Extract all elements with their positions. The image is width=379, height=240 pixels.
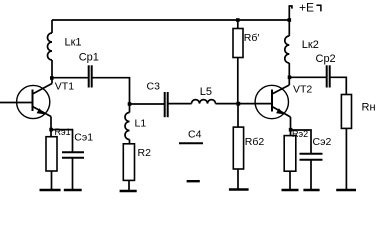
node rail junction for Rб' <box>236 18 240 22</box>
wire emitter VT2 down <box>290 117 292 136</box>
svg-text:R2: R2 <box>138 147 152 159</box>
resistor R2 <box>123 144 151 191</box>
svg-text:Lк2: Lк2 <box>302 39 319 51</box>
capacitor C4 bottom plate <box>187 180 200 182</box>
capacitor Cэ2 <box>300 136 332 190</box>
ground under Cэ2 <box>303 189 319 191</box>
node B2 junction <box>236 102 240 106</box>
capacitor C3 <box>147 81 168 118</box>
ground under Rб2 <box>229 188 249 190</box>
ground under R2 <box>120 190 137 192</box>
svg-text:Cр2: Cр2 <box>316 53 336 65</box>
+Eп supply terminal <box>289 1 321 21</box>
wire collector VT2 to Cp2 <box>289 76 326 78</box>
wire Cp1 to corner down to L1 node <box>93 78 130 104</box>
inductor L5 <box>192 86 216 104</box>
wire node to C3 <box>130 103 165 105</box>
capacitor Cэ1 <box>62 132 93 191</box>
wire input to base VT1 <box>0 102 33 104</box>
svg-text:VT2: VT2 <box>293 84 312 96</box>
svg-text:Lк1: Lк1 <box>65 37 82 49</box>
svg-text:VT1: VT1 <box>55 81 74 93</box>
ground under Cэ1 <box>64 189 82 191</box>
inductor L1 <box>125 104 146 144</box>
svg-text:Rб2: Rб2 <box>245 136 265 148</box>
svg-text:L1: L1 <box>135 118 147 130</box>
wire emitter VT1 down <box>50 117 52 137</box>
svg-text:+E: +E <box>299 1 314 15</box>
capacitor Cр2 <box>316 53 336 88</box>
svg-text:Rэ1: Rэ1 <box>55 127 71 137</box>
node collector VT1 junction <box>50 76 54 80</box>
wire Cp2 to Rн <box>331 77 347 94</box>
transistor VT2 <box>255 84 312 119</box>
resistor Rб2 <box>233 104 264 190</box>
wire C3 to L5 <box>169 103 192 105</box>
svg-text:Rн: Rн <box>362 102 376 114</box>
capacitor Cр1 <box>79 52 99 88</box>
node collector VT2 junction <box>288 76 292 80</box>
resistor Rб' <box>233 20 259 104</box>
inductor Lк2 <box>285 20 319 85</box>
node rail corner +Eп junction <box>288 18 292 22</box>
svg-text:C4: C4 <box>188 128 202 140</box>
wire top supply rail <box>52 19 289 21</box>
wire branch to Cэ1 <box>51 130 73 152</box>
resistor Rн <box>341 95 375 191</box>
transistor VT1 <box>17 81 75 119</box>
svg-text:Rб′: Rб′ <box>244 32 260 44</box>
svg-text:Cэ1: Cэ1 <box>74 132 93 144</box>
wire L5 to node B2 <box>216 103 273 105</box>
svg-text:Cэ2: Cэ2 <box>313 136 332 148</box>
node L1 junction <box>128 102 132 106</box>
svg-text:Cр1: Cр1 <box>79 52 99 64</box>
ground under Rэ2 <box>282 189 299 191</box>
ground under Rн <box>336 189 356 191</box>
svg-text:L5: L5 <box>200 86 212 98</box>
ground under Rэ1 <box>40 189 61 191</box>
resistor Rэ2 <box>284 129 308 190</box>
resistor Rэ1 <box>46 127 71 190</box>
svg-text:C3: C3 <box>147 81 161 93</box>
capacitor C4 top plate <box>179 142 203 144</box>
node emitter VT2 branch junction <box>289 128 293 132</box>
inductor Lк1 <box>48 20 82 84</box>
wire collector to Cp1 <box>52 77 88 79</box>
node emitter VT1 branch junction <box>49 128 53 132</box>
wire branch to Cэ2 <box>291 130 312 153</box>
